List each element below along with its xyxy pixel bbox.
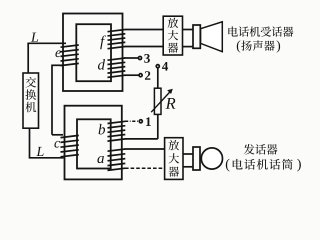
microphone coupler (193, 147, 200, 170)
speaker driver (193, 25, 200, 48)
wire coil b to terminal 1 (dash-dot) (125, 120, 139, 122)
wire f bottom to amplifier (125, 46, 163, 48)
microphone body (201, 148, 222, 169)
terminal 3 (138, 56, 141, 59)
wire amplifier to speaker top (183, 29, 194, 31)
coil f (receiver winding) (108, 30, 126, 49)
rheostat R body (154, 88, 161, 114)
wire L top horizontal (27, 42, 66, 44)
coil e (line winding) (61, 45, 79, 66)
wire L bottom horizontal (29, 157, 64, 159)
wire e-to-c bottom stub (52, 134, 63, 136)
amplifier U1 box (163, 16, 182, 55)
label paren ) of 扬声器 (277, 40, 280, 52)
wire amplifier to microphone bottom (183, 166, 193, 168)
coil a (microphone winding) (108, 149, 126, 170)
label 3 (144, 54, 150, 63)
amplifier U2 box (165, 138, 183, 180)
label 4 (162, 62, 168, 71)
winding label f (100, 35, 106, 49)
winding label d (98, 59, 105, 70)
winding label b (99, 124, 105, 135)
wire coil a bottom to amplifier (dashed) (125, 167, 165, 169)
transformer T2 inner window (77, 119, 111, 168)
amplifier U1 label 放大器 (168, 18, 179, 53)
wire amplifier to microphone top (183, 153, 193, 155)
label 2 (145, 71, 150, 80)
speaker horn (201, 22, 223, 52)
switchboard box (exchange) (23, 73, 39, 128)
wire switchboard bottom vertical (29, 128, 31, 158)
terminal 2 (139, 74, 142, 77)
wire coil a to amplifier (125, 148, 165, 150)
transformer T1 inner window (76, 24, 111, 81)
wire e-to-c vertical (51, 65, 53, 135)
coil c (line winding) (61, 135, 79, 156)
switchboard label 交换机 (25, 77, 36, 112)
coil d (terminal winding) (108, 58, 126, 77)
label (电话机话筒) (233, 159, 293, 170)
label paren ( of 电话机话筒 (226, 159, 230, 172)
amplifier U2 label 放大器 (169, 140, 180, 177)
label R (166, 98, 176, 109)
wire terminal 4 to rheostat (157, 68, 159, 88)
label 电话机受话器 (228, 26, 293, 36)
label 1 (146, 117, 151, 126)
transformer T1 outer core (63, 14, 123, 92)
label L top (31, 33, 38, 42)
wire rheostat to coil b bottom (125, 138, 158, 140)
terminal 1 (139, 120, 142, 123)
label e (55, 50, 60, 57)
terminal 4 (156, 65, 159, 68)
label (扬声器) (241, 40, 274, 50)
wire rheostat bottom vertical (157, 114, 159, 138)
wire d bottom to terminal 2 (124, 74, 139, 76)
rheostat R arrow (151, 89, 173, 112)
label L bottom (36, 147, 43, 156)
label c (54, 141, 60, 148)
wire amplifier to speaker bottom (183, 46, 194, 48)
wire L top vertical (27, 43, 29, 73)
wire e-to-c stub (52, 64, 64, 66)
winding label a (97, 156, 103, 163)
coil b (rheostat winding) (108, 121, 126, 141)
transformer T2 outer core (65, 106, 122, 180)
label 发话器 (244, 144, 278, 155)
label paren ) of 电话机话筒 (297, 159, 301, 172)
label paren ( of 扬声器 (237, 40, 240, 52)
wire f top to amplifier (125, 29, 163, 31)
wire d top to terminal 3 (124, 57, 138, 59)
